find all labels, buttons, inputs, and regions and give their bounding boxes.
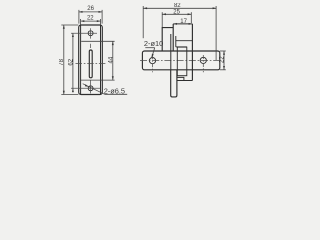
body top edge <box>173 23 192 25</box>
dim 17 <box>173 23 177 25</box>
svg-text:44: 44 <box>108 56 114 63</box>
svg-text:78: 78 <box>59 58 65 65</box>
inner slot rect <box>177 47 187 76</box>
centerline vertical <box>90 28 92 38</box>
centerline hole top horizontal <box>71 32 97 34</box>
dim 25 <box>162 12 191 27</box>
bar axis centerline <box>140 60 222 62</box>
cam <box>171 70 177 97</box>
centerline slot horizontal <box>76 62 106 64</box>
hole right vertical centerline <box>202 55 204 72</box>
dim 22 <box>81 19 101 25</box>
body left step <box>162 28 173 51</box>
hole bottom <box>88 86 93 91</box>
plate outline <box>79 25 103 95</box>
body bottom edge under bar <box>177 80 193 82</box>
bar hole right <box>200 57 206 63</box>
svg-text:82: 82 <box>174 3 181 9</box>
leader 2-o6.5 <box>83 84 105 95</box>
dim 22 right <box>220 51 226 70</box>
svg-text:22: 22 <box>87 15 94 21</box>
hole top <box>88 31 93 36</box>
svg-text:2-ø10: 2-ø10 <box>144 39 163 48</box>
dim 82 <box>143 6 216 60</box>
bolt right line <box>175 36 177 47</box>
dim 44 <box>81 41 115 80</box>
step under body <box>177 77 184 80</box>
dim 26 <box>79 10 103 24</box>
body inner h line 1 <box>176 40 193 42</box>
svg-text:26: 26 <box>87 6 94 12</box>
svg-text:62: 62 <box>69 58 75 65</box>
hole left vertical centerline <box>152 55 154 72</box>
centerline hole bottom horizontal <box>71 87 100 89</box>
svg-text:22: 22 <box>219 56 225 63</box>
slot <box>89 50 92 78</box>
dim 62 <box>72 33 74 88</box>
body inner h line 2 <box>176 46 187 48</box>
plate inner right edge <box>100 25 102 94</box>
body tall section left edge <box>172 24 174 51</box>
plate inner left edge <box>80 25 82 94</box>
bar hole left <box>149 58 155 64</box>
mounting bar <box>142 51 219 70</box>
svg-text:25: 25 <box>173 10 180 16</box>
svg-text:2-ø6.5: 2-ø6.5 <box>104 86 125 95</box>
svg-text:17: 17 <box>180 19 187 25</box>
bolt left line <box>170 34 172 70</box>
body tall section right edge <box>191 24 193 81</box>
dim 78 <box>61 25 78 95</box>
leader 2-o10 <box>145 47 154 49</box>
